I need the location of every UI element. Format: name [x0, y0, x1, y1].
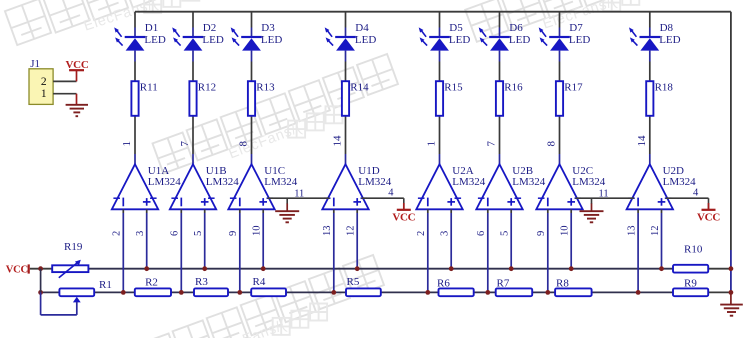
svg-text:1: 1	[426, 141, 438, 147]
svg-text:9: 9	[228, 231, 239, 236]
svg-text:LM324: LM324	[206, 176, 240, 188]
svg-text:J1: J1	[30, 58, 40, 70]
svg-text:LED: LED	[659, 34, 680, 46]
svg-text:13: 13	[322, 226, 333, 237]
svg-text:12: 12	[346, 226, 357, 237]
svg-text:10: 10	[252, 226, 263, 237]
svg-text:R12: R12	[198, 82, 216, 94]
svg-text:LED: LED	[144, 34, 165, 46]
svg-text:LM324: LM324	[358, 176, 392, 188]
svg-text:VCC: VCC	[6, 264, 28, 275]
svg-text:LM324: LM324	[512, 176, 546, 188]
svg-text:D3: D3	[261, 22, 275, 34]
svg-text:VCC: VCC	[392, 211, 415, 223]
svg-text:1: 1	[121, 141, 133, 147]
svg-text:LM324: LM324	[452, 176, 486, 188]
svg-text:2: 2	[41, 76, 47, 88]
svg-text:5: 5	[500, 231, 511, 236]
svg-text:R4: R4	[253, 276, 266, 288]
svg-text:R8: R8	[556, 277, 569, 289]
svg-text:5: 5	[193, 231, 204, 236]
svg-text:12: 12	[650, 226, 661, 237]
svg-text:1: 1	[41, 88, 47, 100]
svg-text:D8: D8	[660, 22, 674, 34]
svg-text:11: 11	[294, 188, 304, 199]
svg-text:LED: LED	[261, 34, 282, 46]
svg-text:R2: R2	[145, 276, 158, 288]
svg-text:R17: R17	[564, 82, 583, 94]
svg-text:R14: R14	[350, 82, 369, 94]
svg-text:R9: R9	[684, 277, 697, 289]
svg-text:8: 8	[546, 141, 558, 147]
svg-text:7: 7	[179, 141, 191, 147]
svg-text:10: 10	[560, 226, 571, 237]
svg-text:2: 2	[112, 231, 123, 236]
svg-text:D6: D6	[509, 22, 523, 34]
svg-text:6: 6	[476, 231, 487, 236]
svg-text:R7: R7	[497, 277, 510, 289]
svg-text:R19: R19	[64, 241, 83, 253]
svg-text:13: 13	[627, 226, 638, 237]
svg-text:D7: D7	[569, 22, 583, 34]
svg-text:R5: R5	[347, 276, 360, 288]
svg-text:8: 8	[238, 141, 250, 147]
svg-text:R15: R15	[444, 82, 463, 94]
svg-text:R18: R18	[655, 82, 674, 94]
svg-text:LM324: LM324	[572, 176, 606, 188]
svg-text:R3: R3	[195, 276, 208, 288]
svg-text:LM324: LM324	[264, 176, 298, 188]
svg-text:LM324: LM324	[663, 176, 697, 188]
svg-text:R10: R10	[684, 243, 703, 255]
svg-text:4: 4	[388, 187, 394, 198]
svg-text:LED: LED	[569, 34, 590, 46]
svg-text:D2: D2	[203, 22, 216, 34]
svg-text:LM324: LM324	[148, 176, 182, 188]
svg-text:R16: R16	[504, 82, 523, 94]
svg-text:6: 6	[170, 231, 181, 236]
svg-text:LED: LED	[449, 34, 470, 46]
svg-text:4: 4	[693, 187, 699, 198]
svg-text:3: 3	[135, 231, 146, 236]
svg-text:LED: LED	[202, 34, 223, 46]
svg-text:11: 11	[599, 188, 609, 199]
svg-text:LED: LED	[509, 34, 530, 46]
svg-text:3: 3	[440, 231, 451, 236]
svg-text:D5: D5	[449, 22, 463, 34]
svg-text:R6: R6	[437, 277, 450, 289]
svg-text:7: 7	[486, 141, 498, 147]
svg-text:LED: LED	[355, 34, 376, 46]
svg-text:VCC: VCC	[697, 211, 720, 223]
svg-text:D4: D4	[355, 22, 369, 34]
svg-text:14: 14	[636, 135, 648, 147]
svg-text:VCC: VCC	[66, 59, 89, 71]
svg-text:R1: R1	[99, 279, 112, 291]
svg-text:D1: D1	[145, 22, 158, 34]
svg-text:R11: R11	[140, 82, 158, 94]
svg-text:R13: R13	[256, 82, 275, 94]
svg-text:2: 2	[416, 231, 427, 236]
svg-text:14: 14	[332, 135, 344, 147]
svg-text:9: 9	[536, 231, 547, 236]
